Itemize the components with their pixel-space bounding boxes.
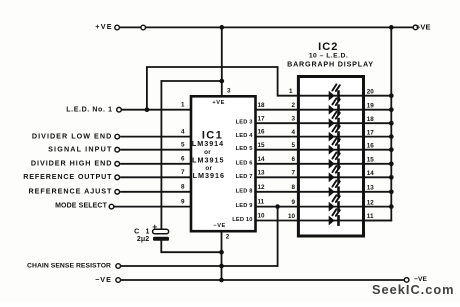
svg-text:BARGRAPH DISPLAY: BARGRAPH DISPLAY [287, 59, 374, 68]
svg-text:7: 7 [291, 170, 295, 177]
svg-text:SeekIC.com: SeekIC.com [372, 282, 455, 297]
svg-text:6: 6 [181, 156, 185, 163]
svg-text:CHAIN SENSE RESISTOR: CHAIN SENSE RESISTOR [27, 262, 111, 269]
svg-text:LED 10: LED 10 [232, 217, 252, 223]
svg-text:12: 12 [258, 184, 266, 191]
svg-text:10: 10 [258, 213, 266, 220]
svg-text:LM3915: LM3915 [192, 155, 224, 164]
svg-text:2: 2 [291, 102, 295, 109]
svg-text:14: 14 [367, 170, 375, 177]
svg-text:REFERENCE OUTPUT: REFERENCE OUTPUT [23, 172, 112, 181]
svg-text:1: 1 [289, 88, 293, 95]
svg-text:LED 7: LED 7 [236, 174, 253, 180]
svg-text:13: 13 [258, 169, 266, 176]
svg-text:+VE: +VE [416, 22, 430, 31]
svg-text:20: 20 [367, 88, 375, 95]
svg-text:DIVIDER LOW END: DIVIDER LOW END [32, 131, 112, 140]
svg-text:MODE SELECT: MODE SELECT [55, 202, 107, 209]
svg-text:12: 12 [367, 199, 375, 206]
svg-text:3: 3 [291, 115, 295, 122]
svg-text:11: 11 [258, 199, 265, 206]
svg-text:4: 4 [291, 129, 295, 136]
svg-text:9: 9 [181, 198, 185, 205]
svg-text:15: 15 [367, 156, 375, 163]
svg-text:C 1: C 1 [134, 228, 152, 235]
svg-text:15: 15 [258, 142, 266, 149]
svg-text:SIGNAL INPUT: SIGNAL INPUT [48, 144, 112, 153]
svg-text:DIVIDER HIGH END: DIVIDER HIGH END [31, 159, 113, 168]
svg-text:16: 16 [367, 142, 375, 149]
svg-text:+: + [152, 221, 157, 231]
svg-text:10: 10 [288, 213, 296, 220]
svg-text:−VE: −VE [213, 223, 226, 229]
svg-text:13: 13 [367, 184, 375, 191]
svg-text:4: 4 [181, 128, 185, 135]
svg-text:3: 3 [227, 87, 231, 94]
svg-text:11: 11 [367, 213, 374, 220]
svg-text:7: 7 [181, 169, 185, 176]
svg-text:18: 18 [258, 102, 266, 109]
svg-text:6: 6 [291, 156, 295, 163]
svg-text:1: 1 [181, 102, 185, 109]
svg-text:2: 2 [226, 234, 230, 241]
svg-text:LED 6: LED 6 [236, 160, 253, 166]
svg-text:16: 16 [258, 129, 266, 136]
svg-text:LED 3: LED 3 [236, 120, 253, 126]
svg-text:IC2: IC2 [318, 41, 338, 53]
svg-text:19: 19 [367, 102, 375, 109]
svg-text:9: 9 [291, 199, 295, 206]
svg-text:8: 8 [291, 184, 295, 191]
svg-text:17: 17 [258, 115, 266, 122]
svg-text:LED 5: LED 5 [236, 146, 253, 152]
svg-text:L.E.D. No. 1: L.E.D. No. 1 [66, 106, 112, 113]
svg-text:−VE: −VE [95, 275, 112, 284]
svg-text:LM3916: LM3916 [193, 171, 225, 180]
svg-text:LED 4: LED 4 [236, 133, 254, 139]
svg-text:LED 8: LED 8 [236, 188, 253, 194]
svg-text:+VE: +VE [95, 22, 112, 31]
svg-text:+VE: +VE [212, 100, 225, 106]
svg-text:5: 5 [291, 142, 295, 149]
svg-text:14: 14 [258, 156, 266, 163]
svg-text:5: 5 [181, 142, 185, 149]
svg-text:LM3914: LM3914 [192, 139, 224, 148]
svg-text:REFERENCE AJUST: REFERENCE AJUST [29, 186, 113, 195]
svg-text:17: 17 [367, 129, 375, 136]
svg-text:18: 18 [367, 116, 375, 123]
svg-text:8: 8 [181, 184, 185, 191]
svg-text:2μ2: 2μ2 [137, 236, 149, 243]
svg-text:LED 9: LED 9 [236, 203, 253, 209]
